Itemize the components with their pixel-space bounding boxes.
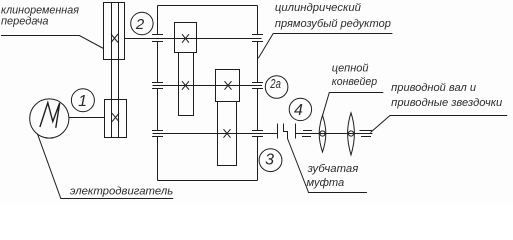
sprocket S1 (319, 115, 326, 152)
shaft I (input) wire (125, 38, 262, 40)
reducer housing left wall segments (157, 6, 159, 181)
bearing caps right wall shaft II (252, 83, 263, 89)
X mark on upper pulley (111, 34, 118, 43)
svg-text:прямозубый редуктор: прямозубый редуктор (275, 18, 391, 30)
svg-text:цилиндрический: цилиндрический (275, 2, 361, 14)
leader line label coupling (288, 139, 367, 193)
X mark gear Z3 (225, 81, 232, 90)
svg-text:передача: передача (1, 15, 49, 27)
svg-text:конвейер: конвейер (332, 76, 377, 88)
bearing caps left wall shaft III (152, 131, 163, 137)
reducer housing right wall segments (257, 6, 259, 181)
shaft III wire (153, 133, 278, 135)
svg-text:4: 4 (294, 102, 303, 119)
svg-text:цепной: цепной (332, 63, 369, 75)
node 4 circle (289, 98, 311, 120)
gear coupling right half-disc (295, 124, 297, 139)
sprocket S1 hub circle (320, 131, 325, 136)
bearing caps left wall shaft II (152, 83, 163, 89)
drive shaft bearing right (360, 131, 373, 137)
leader line label motor (37, 133, 173, 198)
gear coupling teeth step (284, 124, 288, 139)
X mark on lower pulley (112, 113, 119, 122)
svg-text:2а: 2а (270, 76, 281, 91)
gear Z3 pinion on shaft II (216, 70, 240, 102)
motor letter M (40, 103, 60, 128)
node 2 circle (131, 12, 153, 34)
node 1 circle (71, 89, 94, 112)
drive shaft bearing left (302, 131, 312, 137)
bearing caps right wall shaft I (252, 35, 263, 42)
svg-text:1: 1 (78, 93, 87, 110)
drive shaft wire (296, 133, 373, 135)
v-belt strands (111, 3, 113, 138)
sprocket S2 hub circle (348, 131, 353, 136)
svg-text:приводной вал и: приводной вал и (391, 82, 476, 94)
reducer housing bottom wall (158, 180, 258, 182)
gear Z4 wheel on shaft III (218, 102, 237, 166)
leader line label drive shaft (371, 116, 508, 133)
motor shaft wire (69, 117, 105, 119)
shaft II wire (153, 85, 263, 87)
svg-text:зубчатая: зубчатая (307, 163, 359, 175)
X mark gear Z2 (182, 81, 189, 90)
gear Z2 wheel on shaft II (179, 53, 194, 116)
electric motor M1 circle (30, 99, 69, 138)
X mark gear Z4 (224, 129, 231, 138)
leader line label reducer (258, 34, 392, 59)
node 2a circle (265, 76, 288, 99)
svg-text:2: 2 (135, 16, 145, 33)
leader line label chain conveyor (323, 93, 384, 116)
belt: driving pulley (lower) (105, 100, 127, 138)
X mark gear Z1 (182, 34, 189, 43)
svg-text:3: 3 (265, 152, 274, 169)
bearing caps left wall shaft I (152, 35, 163, 42)
svg-text:электродвигатель: электродвигатель (70, 185, 174, 197)
gear Z1 pinion on shaft I (175, 23, 197, 53)
svg-text:муфта: муфта (307, 177, 345, 189)
belt: driven pulley (upper) (104, 3, 125, 60)
bearing caps right wall shaft III (252, 131, 263, 137)
svg-text:приводные звездочки: приводные звездочки (391, 97, 502, 109)
reducer housing top wall (158, 5, 258, 7)
sprocket S2 (348, 113, 355, 155)
gear coupling left half-disc (277, 124, 279, 139)
node 3 circle (259, 149, 282, 172)
leader line label belt drive (1, 36, 104, 49)
